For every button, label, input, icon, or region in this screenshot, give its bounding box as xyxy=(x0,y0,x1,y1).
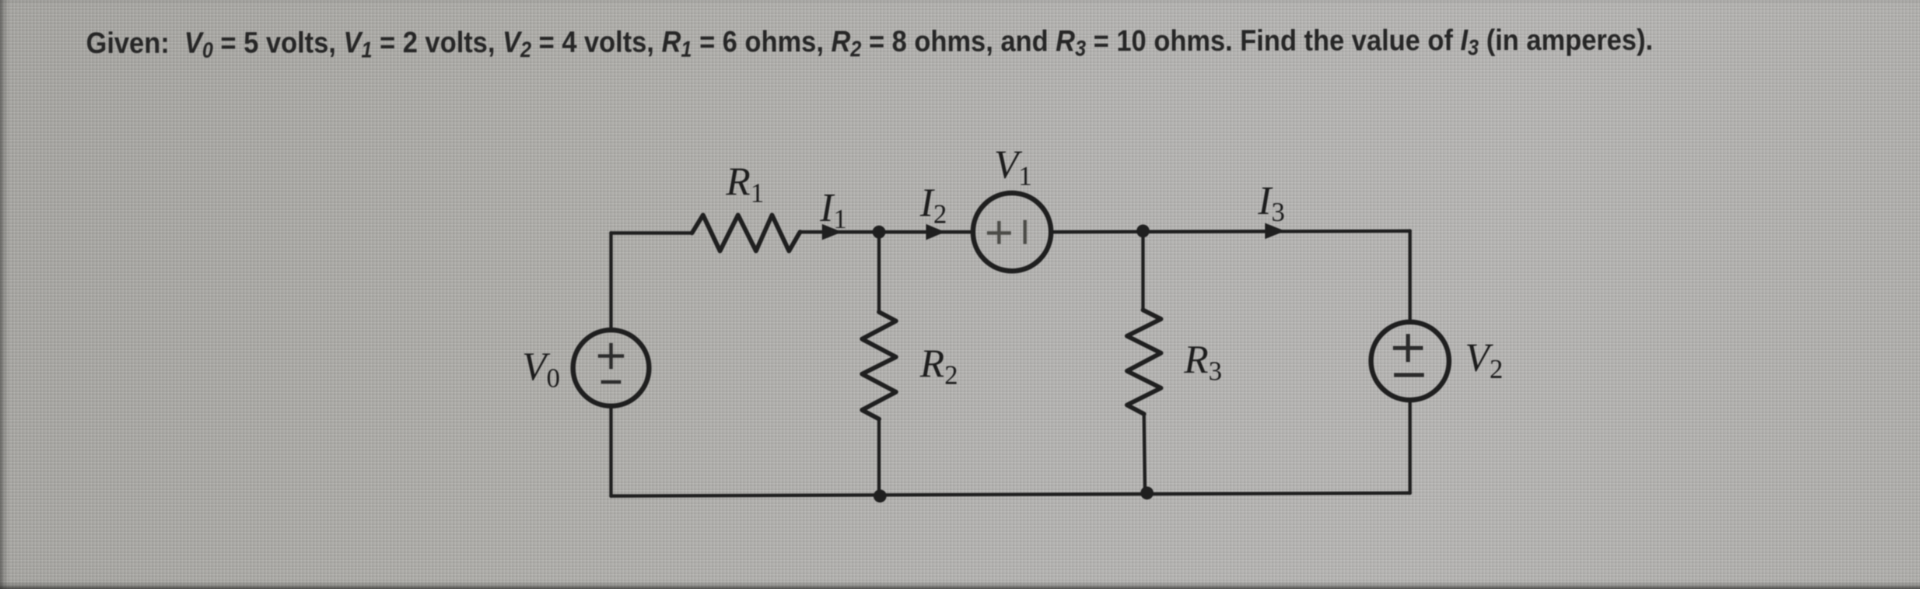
wire right vertical top xyxy=(1408,231,1411,322)
problem statement text xyxy=(86,26,1653,59)
V1 polarity marks xyxy=(987,220,1025,244)
wire R1 to V1 xyxy=(800,230,973,233)
svg-text:I1: I1 xyxy=(819,185,847,234)
wire R2 branch bottom xyxy=(877,419,880,496)
wire right vertical bottom xyxy=(1408,400,1411,493)
V2 polarity marks xyxy=(1393,334,1424,375)
svg-text:V1: V1 xyxy=(994,142,1032,191)
wire left vertical top xyxy=(609,233,612,330)
voltage source V2 xyxy=(1371,322,1449,400)
wire R2 branch top xyxy=(877,232,880,312)
resistor R1 xyxy=(692,215,800,251)
voltage source V1 xyxy=(973,193,1051,271)
node dot bottom R3 xyxy=(1141,487,1154,500)
voltage source V0 xyxy=(573,330,649,406)
wire bottom xyxy=(611,493,1410,496)
node dot bottom R2 xyxy=(874,490,887,503)
svg-text:I3: I3 xyxy=(1257,178,1285,227)
resistor R2 xyxy=(862,312,896,419)
V0 polarity marks xyxy=(598,343,624,382)
wire top-left segment xyxy=(611,231,692,234)
wire R3 branch top xyxy=(1141,231,1144,310)
current arrow I1 xyxy=(822,224,842,240)
svg-text:V0: V0 xyxy=(522,344,560,393)
wire V1 to top-right corner xyxy=(1051,231,1410,232)
current arrow I2 xyxy=(926,224,945,240)
node dot top R2 xyxy=(873,226,886,239)
wire R3 branch bottom xyxy=(1144,414,1145,494)
resistor R3 xyxy=(1127,310,1161,414)
svg-text:R3: R3 xyxy=(1183,337,1222,386)
svg-text:I2: I2 xyxy=(919,180,947,229)
svg-text:V2: V2 xyxy=(1465,335,1503,384)
current arrow I3 xyxy=(1265,223,1285,239)
svg-text:R2: R2 xyxy=(919,341,958,390)
node dot top R3 xyxy=(1137,225,1150,238)
wire left vertical bottom xyxy=(609,406,612,496)
svg-text:R1: R1 xyxy=(725,159,764,208)
